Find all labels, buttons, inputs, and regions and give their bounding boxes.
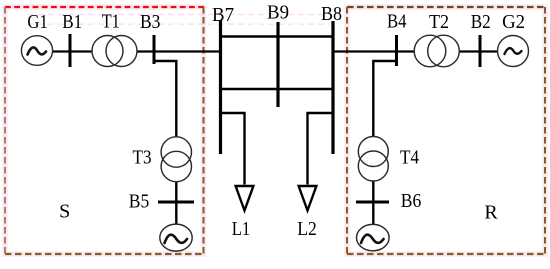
transformer T1	[92, 36, 123, 67]
wire B7-B8 lower connector	[221, 88, 334, 91]
bus B8	[331, 21, 334, 154]
svg-text:B2: B2	[471, 11, 491, 33]
bus B2	[479, 35, 482, 67]
generator G2	[498, 36, 529, 67]
bus B3	[153, 35, 156, 64]
svg-text:B7: B7	[212, 4, 234, 26]
svg-text:L1: L1	[232, 218, 251, 240]
svg-text:S: S	[59, 201, 70, 223]
wire T4 to R generator	[372, 179, 374, 225]
svg-text:B4: B4	[387, 11, 407, 33]
wire T3 to S generator	[175, 180, 177, 225]
wire B3 stub down to T3	[154, 61, 176, 140]
svg-text:T2: T2	[429, 11, 449, 33]
bus B9	[276, 22, 279, 107]
svg-text:T4: T4	[400, 147, 419, 169]
bus B5	[158, 201, 194, 204]
wire G1 to T1 to B3 to B7	[50, 50, 221, 52]
transformer T2	[414, 35, 446, 67]
S area dashed box top (red)	[5, 6, 204, 8]
svg-text:G1: G1	[27, 11, 48, 33]
wire B7-B8 top connector	[221, 35, 334, 38]
svg-text:B8: B8	[321, 3, 342, 25]
S area dashed box right	[203, 7, 205, 254]
svg-text:L2: L2	[297, 218, 317, 240]
svg-text:B3: B3	[140, 11, 161, 33]
load L2 arrow	[299, 186, 317, 211]
transformer T3	[161, 137, 191, 167]
bus B4	[395, 35, 398, 66]
faint pink guide line lower	[28, 23, 330, 25]
svg-text:T3: T3	[133, 147, 152, 169]
bus B6	[356, 201, 389, 204]
svg-text:B1: B1	[62, 11, 82, 33]
svg-text:R: R	[484, 202, 498, 224]
S area dashed box bottom	[5, 253, 204, 255]
svg-text:B5: B5	[129, 191, 150, 213]
generator G1	[21, 36, 52, 66]
svg-text:B9: B9	[267, 2, 289, 24]
wire B8 to T2 to G2	[333, 50, 500, 52]
R area dashed box top	[347, 6, 545, 8]
R area dashed box left	[346, 7, 348, 254]
wire load L1 feeder	[221, 113, 245, 185]
load L1 arrow	[236, 186, 254, 211]
svg-text:T1: T1	[102, 11, 120, 33]
generator R2	[357, 224, 390, 250]
faint pink guide line upper	[28, 14, 330, 16]
transformer T4	[358, 137, 388, 167]
generator S2	[160, 224, 192, 251]
wire B4 stub down to T4	[373, 61, 396, 140]
bus B1	[69, 34, 72, 67]
S area dashed box left	[4, 7, 6, 254]
wire load L2 feeder	[308, 113, 334, 185]
svg-text:B6: B6	[401, 190, 422, 212]
R area dashed box right	[544, 7, 546, 254]
R area dashed box bottom	[347, 253, 545, 255]
svg-text:G2: G2	[502, 11, 525, 33]
bus B7	[219, 20, 222, 154]
